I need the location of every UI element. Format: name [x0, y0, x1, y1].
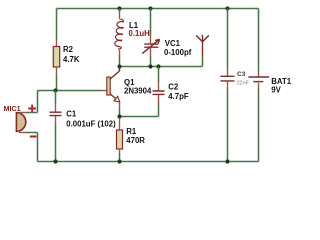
node base junction — [53, 88, 57, 92]
wire VC1 bottom — [150, 48, 152, 67]
antenna ANT — [196, 35, 209, 67]
node C3 bottom junction — [225, 159, 229, 163]
svg-text:22nF: 22nF — [237, 80, 250, 86]
label MIC1 — [4, 104, 21, 113]
label C3 value — [237, 71, 250, 86]
label L1 value — [129, 21, 151, 38]
wire L1 bottom pin — [119, 50, 121, 67]
svg-text:9V: 9V — [271, 85, 281, 94]
label Q1 value — [124, 78, 152, 95]
capacitor C2 — [153, 91, 165, 94]
label C2 value — [168, 83, 189, 101]
microphone MIC1 — [16, 113, 25, 132]
svg-text:470R: 470R — [126, 136, 145, 145]
svg-text:2N3904: 2N3904 — [124, 86, 152, 95]
node VC1 top junction — [148, 6, 152, 10]
svg-text:VC1: VC1 — [165, 39, 181, 48]
svg-text:C3: C3 — [237, 71, 246, 78]
svg-text:C1: C1 — [66, 109, 77, 118]
node VC1 bottom junction — [148, 64, 152, 68]
wire C1 bottom — [55, 116, 57, 161]
svg-text:C2: C2 — [168, 83, 179, 92]
node R1 bottom junction — [117, 159, 121, 163]
wire C1 top — [55, 91, 57, 112]
node emitter junction — [117, 114, 121, 118]
wire emitter down — [119, 102, 121, 117]
inductor L1 — [115, 19, 124, 49]
svg-text:0.1uH: 0.1uH — [129, 29, 151, 38]
svg-text:R2: R2 — [63, 45, 74, 54]
wire top-left drop to R2 — [56, 9, 58, 47]
battery BAT1 — [248, 77, 269, 82]
wire R1 bottom pin — [119, 149, 121, 162]
capacitor C3 — [220, 76, 234, 81]
wire collector node horizontal — [120, 66, 203, 68]
wire L1 top pin — [119, 9, 121, 20]
svg-text:4.7pF: 4.7pF — [168, 92, 189, 101]
wire mic plus terminal — [19, 91, 38, 113]
label C1 value — [66, 109, 116, 128]
wire bottom rail — [38, 161, 259, 163]
wire battery top — [258, 9, 260, 77]
wire battery bottom — [258, 83, 260, 162]
transistor Q1 — [102, 67, 120, 103]
wire base node horizontal — [38, 90, 103, 92]
wire C3 top — [227, 9, 229, 77]
node L1 top junction — [117, 6, 121, 10]
resistor R2 — [53, 47, 59, 68]
svg-text:MIC1: MIC1 — [4, 104, 21, 113]
mic plus sign — [28, 105, 36, 113]
label VC1 value — [164, 39, 192, 57]
resistor R1 — [117, 130, 123, 149]
node C2 top junction — [156, 64, 160, 68]
wire C2 bottom — [158, 95, 160, 117]
capacitor C1 — [50, 112, 62, 115]
svg-text:4.7K: 4.7K — [63, 55, 80, 64]
label R1 value — [126, 127, 145, 145]
svg-text:0-100pf: 0-100pf — [164, 48, 192, 57]
svg-text:0.001uF (102): 0.001uF (102) — [66, 119, 116, 128]
wire emitter node horizontal — [120, 116, 159, 118]
node collector junction — [117, 64, 121, 68]
mic minus sign — [30, 135, 37, 137]
wire top rail VCC — [57, 8, 259, 10]
label R2 value — [63, 45, 80, 64]
node C3 top junction — [225, 6, 229, 10]
wire C3 bottom — [227, 81, 229, 161]
label BAT1 value — [271, 77, 291, 94]
node C1 bottom junction — [53, 159, 57, 163]
wire R1 top pin — [119, 118, 121, 130]
wire C2 top — [158, 67, 160, 91]
variable capacitor VC1 — [142, 39, 159, 53]
wire VC1 top — [150, 9, 152, 44]
wire mic minus terminal — [19, 133, 38, 162]
wire R2 bottom to base node — [56, 67, 58, 91]
